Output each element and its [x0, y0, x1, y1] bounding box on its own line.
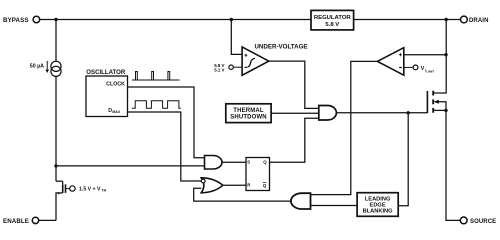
svg-text:1.5 V + V: 1.5 V + V: [79, 187, 101, 193]
thermal shutdown U4 box: [226, 104, 271, 123]
wire current limit plus input: [404, 54, 446, 56]
leading edge blanking U7 box: [357, 193, 398, 217]
or gate U10 reset: [201, 178, 223, 193]
wire gate drive output: [336, 112, 427, 114]
svg-text:LEADING: LEADING: [365, 196, 391, 202]
op-amp U3 under-voltage comparator: [242, 47, 269, 75]
wire bypass rail left: [40, 19, 311, 21]
and gate U5 gate driver: [319, 106, 337, 121]
transistor Q1 output mosfet: [427, 91, 446, 113]
value label 1.5 V + VTH: [79, 187, 107, 193]
wire or output to R: [223, 184, 246, 186]
svg-text:REGULATOR: REGULATOR: [314, 15, 352, 21]
terminal 1.5V+VTH gate reference: [70, 186, 75, 191]
svg-text:5.1 V: 5.1 V: [214, 67, 224, 72]
oscillator U2 box: [86, 76, 128, 117]
svg-text:LIMIT: LIMIT: [426, 70, 434, 74]
terminal DRAIN: [461, 16, 468, 23]
svg-text:BYPASS: BYPASS: [3, 17, 29, 24]
waveform dmax pulses: [132, 101, 181, 109]
inverter bubble on or gate input: [201, 179, 205, 183]
wire Q output to gate driver: [270, 118, 319, 162]
svg-text:UNDER-VOLTAGE: UNDER-VOLTAGE: [254, 44, 307, 51]
wire and output to S: [222, 161, 246, 163]
svg-text:Q: Q: [263, 183, 267, 188]
node regulator input junction: [230, 18, 233, 21]
regulator U1 box: [311, 10, 354, 30]
waveform clock spikes: [132, 72, 180, 81]
svg-text:THERMAL: THERMAL: [233, 108, 264, 114]
wire regulator to drain: [354, 19, 461, 21]
terminal 5.8/5.1 reference input: [229, 65, 233, 69]
node bypass junction: [54, 18, 57, 21]
wire reference to comparator minus: [233, 66, 242, 68]
svg-text:5.8 V: 5.8 V: [325, 22, 339, 28]
svg-text:S: S: [247, 160, 250, 165]
op-amp U6 current limit comparator: [377, 48, 403, 75]
svg-text:DRAIN: DRAIN: [469, 18, 489, 24]
value label 5.8V 5.1V: [214, 63, 224, 73]
wire undervoltage plus input: [231, 20, 242, 55]
wire source down to SOURCE pin: [446, 110, 460, 220]
svg-text:SOURCE: SOURCE: [470, 219, 496, 225]
flip-flop U11 SR latch: [246, 158, 270, 191]
wire enable pin to transistor: [39, 219, 56, 221]
node drain junction: [445, 18, 448, 21]
wire leb output to and gate: [311, 205, 358, 207]
wire thermal shutdown output: [271, 112, 319, 114]
wire drain vertical to mosfet: [433, 20, 446, 94]
node enable branch junction: [54, 164, 57, 167]
terminal BYPASS: [33, 16, 40, 23]
and gate U9 clock enable: [205, 156, 223, 170]
svg-text:CLOCK: CLOCK: [106, 82, 125, 88]
wire gate drive to leading edge blanking: [398, 113, 408, 206]
wire enable line to and gate: [56, 165, 205, 167]
svg-text:EDGE: EDGE: [370, 203, 386, 209]
wire comparator minus to vilimit: [404, 66, 413, 68]
label VILIMIT: [421, 66, 435, 74]
node drain sense junction: [444, 53, 447, 56]
svg-text:Q: Q: [263, 160, 267, 165]
terminal ENABLE: [32, 217, 38, 223]
svg-text:ENABLE: ENABLE: [3, 218, 29, 225]
wire bypass vertical upper: [55, 20, 57, 62]
wire clock output: [128, 87, 205, 158]
node gate drive junction: [407, 111, 410, 114]
terminal VILIMIT: [413, 65, 418, 70]
svg-text:OSCILLATOR: OSCILLATOR: [86, 69, 126, 76]
wire blanking and output feedback: [194, 188, 291, 201]
wire current limit output: [311, 61, 378, 194]
current source I1 50uA: [45, 61, 61, 77]
node mosfet source junction: [444, 109, 447, 112]
terminal SOURCE: [460, 217, 467, 224]
transistor Q2 enable sense: [56, 181, 70, 220]
svg-text:BLANKING: BLANKING: [363, 209, 394, 215]
and gate U8 current limit blanking: [291, 193, 311, 209]
svg-text:TH: TH: [102, 189, 107, 193]
wire bypass vertical lower: [55, 76, 57, 181]
svg-text:R: R: [247, 182, 251, 187]
wire undervoltage output: [269, 61, 319, 108]
svg-text:MAX: MAX: [112, 110, 120, 114]
svg-text:50 µA: 50 µA: [30, 64, 44, 70]
wire dmax output: [128, 112, 202, 181]
svg-text:SHUTDOWN: SHUTDOWN: [230, 115, 267, 121]
